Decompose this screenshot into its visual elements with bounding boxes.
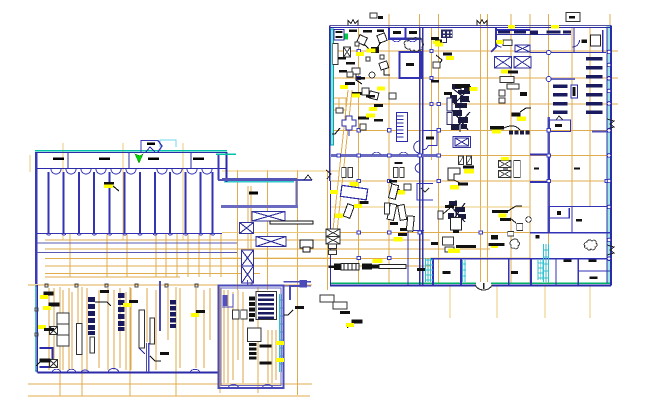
door zigzag xyxy=(326,170,331,179)
room right of spine xyxy=(415,131,572,234)
small box 96 xyxy=(362,88,369,95)
left wall xyxy=(36,285,38,373)
top wall xyxy=(330,25,611,27)
node row y104 xyxy=(430,102,441,105)
green arrow symbol xyxy=(135,154,143,163)
tilt 380 62 xyxy=(379,61,389,70)
grid conveyor double vertical xyxy=(248,186,251,285)
corridor top wall xyxy=(218,179,312,181)
door jog right of corridor xyxy=(304,175,312,180)
small rect right xyxy=(566,13,580,22)
plus room stem xyxy=(348,130,350,136)
glyph d xyxy=(36,359,50,366)
yellow tlq2 xyxy=(356,52,364,56)
block top stub xyxy=(248,280,253,286)
teal accents group xyxy=(35,27,611,371)
teal stub top xyxy=(216,153,236,155)
stem 1 xyxy=(364,42,381,52)
xbox small 2 xyxy=(50,360,58,368)
hatch right block xyxy=(279,294,284,372)
hook 128 xyxy=(332,128,340,134)
extra bl machines xyxy=(123,300,205,361)
conveyor head xyxy=(300,240,313,248)
grid vertical below right building xyxy=(450,285,590,318)
bm glyph hook xyxy=(113,186,119,191)
tilted room 190 xyxy=(340,185,367,200)
node row y232 xyxy=(357,231,482,234)
bottom wall xyxy=(37,371,218,373)
waffle dash xyxy=(435,40,442,43)
L machine hook xyxy=(454,180,468,184)
glyph 126 300 xyxy=(129,300,138,303)
L mark 384 72 xyxy=(384,70,390,75)
cluster 117 yellow xyxy=(366,114,375,118)
node row y78 xyxy=(357,76,433,79)
small rect dash xyxy=(569,16,575,18)
office dash 576b xyxy=(574,167,580,169)
marker squares top row xyxy=(45,284,198,287)
robot2 lines xyxy=(449,200,465,228)
yellow wall 508 xyxy=(508,25,515,28)
yellow 446 57 xyxy=(446,56,454,60)
block small room topleft xyxy=(222,294,233,307)
corridor wall arcs xyxy=(372,152,408,155)
dash 507 70 xyxy=(508,71,518,74)
xbox 3 xyxy=(256,237,286,247)
robot1 dash xyxy=(444,92,452,95)
cluster tilt extra xyxy=(388,184,398,199)
doorframe a xyxy=(342,168,346,178)
office vertical x556 xyxy=(555,259,557,285)
tall rack mid2 xyxy=(150,318,155,344)
rack col left xyxy=(333,44,338,65)
dash 70 xyxy=(345,82,355,85)
blue room mid xyxy=(400,52,422,78)
vertical doorframe 239 xyxy=(385,203,390,214)
rack white tall 1 xyxy=(57,313,69,346)
mini xbox 1 xyxy=(499,161,512,168)
dash 339 70 xyxy=(339,70,347,73)
office subroom xyxy=(550,208,569,218)
machine clutter: bottom-left building orange verticals xyxy=(49,288,276,383)
right block verticals xyxy=(224,290,276,383)
yellow top wall xyxy=(551,25,559,28)
bottom wall arcs xyxy=(52,368,200,372)
tilted sq 1 xyxy=(357,35,368,46)
mid white box xyxy=(248,328,262,342)
top right wall area xyxy=(491,28,530,52)
top bump 2 xyxy=(477,20,487,26)
left-mid glyph strip xyxy=(431,37,454,83)
spine wall second xyxy=(422,28,424,285)
navy vertical x160 xyxy=(159,281,161,331)
conveyor machine black xyxy=(362,264,379,270)
glyph cluster mid xyxy=(352,68,360,74)
partition walls vertical xyxy=(49,172,213,233)
dash 434 xyxy=(431,242,438,245)
xbox column b xyxy=(242,266,254,283)
desks 440 xyxy=(443,237,454,245)
doorframe pair e1 xyxy=(459,156,464,165)
spine room dash xyxy=(426,137,434,140)
bm glyph 1 xyxy=(104,182,114,185)
black chain column xyxy=(249,297,255,322)
chain mid xyxy=(170,300,176,328)
small box 125 xyxy=(360,124,366,130)
office black sq2 xyxy=(536,235,540,238)
waffle stem xyxy=(441,38,447,43)
robot1 yellow xyxy=(470,87,478,91)
glyph e hook xyxy=(95,302,111,306)
sq row xyxy=(509,131,530,135)
right wall inner xyxy=(606,28,608,283)
mr dash3 xyxy=(340,311,350,314)
top bump 1 xyxy=(348,20,358,26)
xbox rack A xyxy=(495,57,512,69)
office dash 589 xyxy=(590,277,598,279)
white vert rect xyxy=(514,161,521,178)
far right column machines xyxy=(417,32,603,279)
top wall row dashes xyxy=(498,31,571,34)
grid connector horizontals xyxy=(222,171,340,258)
node circle y52 xyxy=(547,50,551,54)
block bottom arcs xyxy=(228,384,273,388)
tr yellow xyxy=(517,117,526,121)
connector square xyxy=(300,281,307,288)
mr room wall xyxy=(290,286,304,300)
small box 137 xyxy=(336,108,343,113)
connector line to right xyxy=(284,282,312,286)
bm glyph 1 yellow xyxy=(104,184,113,188)
cluster 117 dash xyxy=(358,117,369,120)
plus room xyxy=(342,116,356,130)
black T xyxy=(371,47,379,53)
corridor bottom wall xyxy=(221,205,298,208)
h black patch xyxy=(491,235,498,240)
robot2 white box xyxy=(451,218,462,231)
spine arc bump xyxy=(414,141,420,153)
glyph a xyxy=(41,292,53,299)
rack stripes col B xyxy=(553,85,568,114)
top rooms arcs xyxy=(392,39,417,42)
office cloud xyxy=(584,240,597,250)
glyph a yellow xyxy=(40,295,48,299)
glyph 196 310 xyxy=(196,310,205,313)
small box 348 74 xyxy=(347,72,353,77)
glyph 432 37 xyxy=(431,37,439,40)
teal top line left building xyxy=(35,150,227,152)
node row y258 xyxy=(357,256,391,259)
dash 1 xyxy=(260,345,272,348)
cluster 185 yellow xyxy=(396,190,405,194)
conveyor X-boxes below corridor xyxy=(240,212,314,284)
hatch band 3 xyxy=(543,244,549,282)
room dash b3 xyxy=(417,268,425,271)
xbox small 1 xyxy=(50,327,58,335)
xbox 1 xyxy=(252,212,285,222)
xbox stack left wall b xyxy=(326,237,340,245)
yellow 352 95 xyxy=(352,94,360,98)
hw y131 right xyxy=(592,131,610,133)
rack divider xyxy=(57,324,69,335)
spine bump left xyxy=(415,164,420,173)
yellow 183 xyxy=(350,182,359,186)
grid vertical right building xyxy=(359,14,611,290)
cluster black bits xyxy=(390,222,407,231)
robot1 dense xyxy=(450,84,471,108)
office vertical x549 xyxy=(548,207,550,234)
corridor wall y155 xyxy=(331,154,438,157)
cloud blob xyxy=(404,38,423,52)
right building left lower wall xyxy=(329,156,331,181)
room549 dash xyxy=(555,124,562,127)
grid band verticals xyxy=(70,234,221,277)
node circle xyxy=(546,77,551,82)
office dash 588 xyxy=(588,260,596,262)
dash row top b xyxy=(363,30,372,33)
cluster 185 diag xyxy=(390,182,404,194)
conveyor bar long xyxy=(379,265,406,269)
desk boxes 507 84 xyxy=(507,84,519,89)
room step xyxy=(139,343,145,354)
wide xbox xyxy=(515,45,530,52)
office vertical x572 xyxy=(571,207,573,233)
grid bottom-left long verticals xyxy=(60,287,258,396)
right-mid machines xyxy=(489,25,580,249)
grid horizontal faint xyxy=(331,207,530,258)
yellow 433 xyxy=(433,41,440,45)
yellow 191 313 xyxy=(191,313,199,317)
circle 527 xyxy=(526,217,532,223)
corridor top wall upper line xyxy=(222,177,297,179)
grid horizontal right building xyxy=(331,51,618,233)
robot1 lines xyxy=(452,84,470,108)
dash bump room xyxy=(147,143,155,145)
dash left wall xyxy=(329,265,336,268)
desk yellow xyxy=(448,249,460,253)
small sq pair xyxy=(355,42,384,61)
band navy thin lines xyxy=(37,243,237,252)
dash room2 xyxy=(99,158,110,161)
h stem xyxy=(510,218,516,223)
box 390 95 xyxy=(389,93,396,99)
robot1 lower lines xyxy=(452,108,470,132)
navy vertical pair x146 xyxy=(147,343,149,372)
tr glyph xyxy=(512,113,521,117)
mr boxes xyxy=(320,295,334,302)
h stem box xyxy=(517,224,523,231)
bottom-left building shell xyxy=(35,281,219,373)
conveyor head mark xyxy=(303,247,310,252)
node row y181 xyxy=(357,179,608,182)
cluster 185 box xyxy=(404,184,411,190)
hook 436 xyxy=(436,55,442,66)
office room bottom right xyxy=(578,270,610,272)
yellow 100b xyxy=(369,107,377,111)
h bar xyxy=(500,218,511,221)
vertical lines xyxy=(49,288,210,370)
room dash b2 xyxy=(511,271,518,274)
room rows bottom middle verticals xyxy=(433,259,531,285)
h yellow2 xyxy=(491,244,498,248)
glyph c yellow xyxy=(38,325,46,329)
corridor right wall xyxy=(295,181,297,206)
grid left building verticals xyxy=(30,143,183,240)
rack white tall 3 xyxy=(90,337,95,353)
office wall y232.5 xyxy=(530,232,610,234)
h dash 492 210 xyxy=(492,210,508,213)
node row y130 xyxy=(357,129,550,132)
dash 100b xyxy=(374,104,383,107)
h hook xyxy=(508,206,522,211)
office dash 535 xyxy=(534,167,539,169)
tilted box 100 xyxy=(368,91,379,100)
dash row 489 xyxy=(490,126,504,129)
small boxes pair xyxy=(499,90,505,103)
machine black head xyxy=(334,264,341,271)
doorframe diag xyxy=(459,156,472,165)
doorframe b xyxy=(394,168,398,178)
right wall xyxy=(610,26,612,286)
grid diagonal left of right building xyxy=(333,90,352,232)
teal connector top xyxy=(224,181,294,183)
room rows bottom wall xyxy=(430,258,530,260)
office black sq xyxy=(557,211,561,215)
spine room 2 glyph xyxy=(421,188,429,192)
yellow 502 xyxy=(501,70,510,74)
mr boxes2 xyxy=(333,302,347,309)
hatch band 2b xyxy=(538,259,544,280)
office vertical x578 xyxy=(577,259,579,285)
green mark xyxy=(345,34,349,40)
block outline xyxy=(219,286,284,389)
room 574 xyxy=(574,28,603,53)
rack stripes col A xyxy=(586,57,603,114)
dash tlq2 xyxy=(338,57,346,60)
wall left outer xyxy=(35,152,37,284)
yellow 501 xyxy=(501,157,509,161)
mid machines robots xyxy=(431,30,478,253)
room bottom arc a xyxy=(496,40,580,47)
dash 431 80 xyxy=(431,80,439,83)
robot1 top bar xyxy=(455,84,470,88)
yellow 497 xyxy=(496,40,503,44)
office top wall y206 xyxy=(549,206,610,208)
yellow 70 xyxy=(340,85,348,89)
spine room arc xyxy=(423,146,428,150)
node row y155 xyxy=(337,154,550,157)
room topleft dash2 xyxy=(336,36,343,38)
yellow tlq1 xyxy=(367,49,376,53)
right building left wall lowest xyxy=(330,181,332,285)
tiny black xyxy=(378,16,383,19)
block small blue fill xyxy=(223,295,228,306)
office dash 563 xyxy=(564,260,572,262)
wall top xyxy=(35,151,227,153)
cluster yellow xyxy=(394,237,403,242)
vert door rect xyxy=(571,85,577,98)
top-left quadrant machines of right hall xyxy=(332,30,411,200)
desks 442 xyxy=(445,247,454,252)
rack white tall 2 xyxy=(77,324,83,355)
spine room outline xyxy=(423,131,437,146)
corridor dash xyxy=(249,192,258,195)
room dashes bottom xyxy=(442,271,450,274)
yellow 124 303 xyxy=(123,303,131,307)
teal bottom line right building xyxy=(331,282,611,284)
conveyor yellow xyxy=(373,259,383,263)
ladder xyxy=(397,113,408,142)
cluster tall tilt2 xyxy=(398,205,407,221)
door swing arcs top row xyxy=(51,169,212,174)
top wall second line xyxy=(330,27,611,29)
bottom door notch xyxy=(475,282,492,290)
h yellow xyxy=(499,214,507,218)
glyph b xyxy=(45,303,59,310)
room574 black xyxy=(582,40,588,43)
dash room1 xyxy=(53,158,64,161)
yellow 377 88 xyxy=(377,87,385,91)
dash tlq xyxy=(346,62,355,65)
office dash 576 xyxy=(576,219,582,221)
dash row top a xyxy=(349,30,357,33)
right building interior walls xyxy=(331,28,610,285)
machine striped lines xyxy=(344,264,356,271)
cluster dash xyxy=(398,233,407,236)
mini arrow xyxy=(503,168,508,170)
dash 445 xyxy=(445,205,454,208)
desk dash xyxy=(456,245,476,248)
top rooms dash1 xyxy=(393,31,401,34)
tilted sq 2 xyxy=(377,33,387,43)
partition top dividers xyxy=(68,153,191,169)
mr glyph1 xyxy=(284,310,293,315)
doorframe b2 xyxy=(400,168,404,178)
robot1 lower blob a xyxy=(451,110,468,130)
xbox vert xyxy=(344,47,351,57)
xbox rack B xyxy=(514,57,531,69)
L machine dash xyxy=(463,166,474,169)
connector corridor walls xyxy=(216,154,331,285)
mr yellow xyxy=(346,323,354,327)
L machine xyxy=(448,168,460,180)
left wall upper xyxy=(329,26,331,156)
xbox double xyxy=(453,137,471,148)
black dashes left building top row xyxy=(53,143,204,161)
black stack xyxy=(249,343,257,360)
spine wall double xyxy=(419,28,421,285)
dash 357 77 xyxy=(357,77,365,80)
rack outline xyxy=(256,292,277,320)
yellow 492 xyxy=(492,130,501,134)
small box 503 xyxy=(503,40,512,46)
node row y51 xyxy=(357,49,433,52)
marker squares left wall xyxy=(35,308,38,336)
stem mid xyxy=(356,74,362,84)
right wall door jog xyxy=(607,119,614,129)
office wall y258 xyxy=(530,258,610,260)
blue room dash xyxy=(406,63,414,66)
node wall right circles xyxy=(607,50,611,260)
yellow 213 xyxy=(335,214,343,218)
dash 160 352 xyxy=(160,352,169,355)
h bar2 xyxy=(489,243,505,246)
block inner line xyxy=(221,288,281,386)
teal left wall bottom-left building xyxy=(35,286,37,371)
top rooms pair xyxy=(389,28,421,39)
machines in band above bottom-left building xyxy=(104,182,119,191)
room x530 y154 xyxy=(530,155,549,183)
